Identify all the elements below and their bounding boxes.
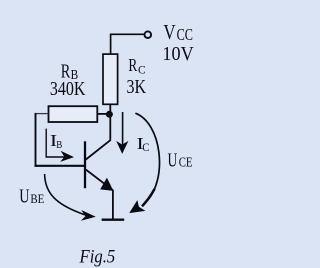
resistor RB bbox=[49, 106, 98, 122]
terminal VCC bbox=[145, 31, 152, 38]
arrow IC bbox=[122, 112, 124, 145]
label 3K bbox=[127, 75, 147, 97]
label VCC bbox=[163, 21, 175, 44]
svg-text:U: U bbox=[168, 149, 178, 171]
label IC bbox=[137, 135, 144, 153]
wire: RC bottom to collector elbow bbox=[109, 104, 111, 140]
svg-text:U: U bbox=[19, 185, 30, 207]
svg-text:C: C bbox=[142, 142, 149, 154]
label 10V bbox=[162, 43, 194, 65]
wire: base horizontal bbox=[35, 165, 86, 167]
wire: emitter down bbox=[112, 190, 114, 219]
wire: left vertical bbox=[35, 113, 37, 167]
resistor RC bbox=[103, 54, 118, 104]
label UBE bbox=[19, 185, 30, 207]
wire: RB right to junction bbox=[97, 113, 107, 115]
svg-text:340K: 340K bbox=[50, 78, 86, 100]
transistor collector lead bbox=[86, 140, 111, 160]
ground bbox=[102, 218, 125, 220]
arc UBE bbox=[45, 174, 85, 215]
label 340K bbox=[50, 78, 86, 100]
label UCE bbox=[168, 149, 178, 171]
svg-text:B: B bbox=[56, 139, 62, 151]
arrow IB bbox=[46, 129, 66, 157]
svg-text:3K: 3K bbox=[127, 75, 147, 97]
svg-text:CC: CC bbox=[177, 26, 193, 44]
svg-text:CE: CE bbox=[179, 154, 193, 169]
svg-text:R: R bbox=[128, 56, 137, 75]
label RB bbox=[61, 59, 71, 82]
svg-text:10V: 10V bbox=[162, 43, 194, 65]
wire: VCC down to RC bbox=[110, 34, 112, 55]
wire: VCC top rail bbox=[111, 33, 145, 35]
arc UCE bbox=[135, 113, 159, 202]
node: collector junction bbox=[106, 111, 113, 118]
label RC bbox=[128, 56, 137, 75]
transistor emitter lead bbox=[86, 170, 113, 191]
label IB bbox=[50, 133, 57, 151]
svg-text:BE: BE bbox=[30, 191, 44, 206]
svg-text:Fig.5: Fig.5 bbox=[79, 245, 116, 266]
svg-text:V: V bbox=[163, 21, 175, 44]
wire: RB left bbox=[36, 113, 49, 115]
transistor base bar bbox=[84, 141, 86, 188]
emitter arrowhead bbox=[100, 178, 113, 191]
caption Fig.5 bbox=[79, 245, 116, 266]
